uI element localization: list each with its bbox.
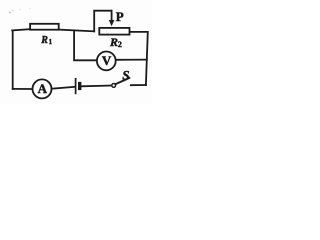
battery long plate (75, 78, 77, 94)
wire voltmeter right to right vertical (117, 59, 147, 61)
svg-text:P: P (116, 9, 124, 24)
wire V branch: down from R1 wire then right to voltmeter (74, 31, 96, 60)
resistor R2 (99, 28, 129, 35)
wire bottom-left to ammeter (13, 88, 32, 90)
faint scan specks top-left (9, 8, 31, 14)
svg-text:V: V (102, 53, 112, 68)
wire R2 right side and right vertical (130, 32, 147, 85)
battery short thick plate (78, 82, 81, 90)
svg-text:S: S (122, 68, 129, 83)
switch pivot circle (112, 84, 116, 88)
svg-text:2: 2 (118, 40, 122, 49)
potentiometer wiper arrowhead (109, 20, 115, 26)
wire switch fixed contact to right corner (131, 84, 146, 86)
wire riser up and top feed to wiper (94, 11, 111, 32)
wire top-left horizontal to R1 (12, 29, 30, 30)
potentiometer wiper arrow P (111, 11, 113, 21)
wire battery to switch pivot (81, 85, 112, 88)
switch blade (116, 78, 130, 84)
svg-text:R: R (40, 35, 48, 46)
svg-text:1: 1 (49, 38, 53, 46)
wire ammeter to battery (52, 87, 74, 89)
ammeter A (33, 79, 52, 98)
svg-text:A: A (38, 81, 48, 96)
svg-text:R: R (109, 35, 118, 49)
voltmeter V (97, 52, 116, 71)
wire left vertical (12, 31, 14, 89)
wire R1 right to riser (60, 30, 95, 32)
resistor R1 (30, 24, 59, 30)
